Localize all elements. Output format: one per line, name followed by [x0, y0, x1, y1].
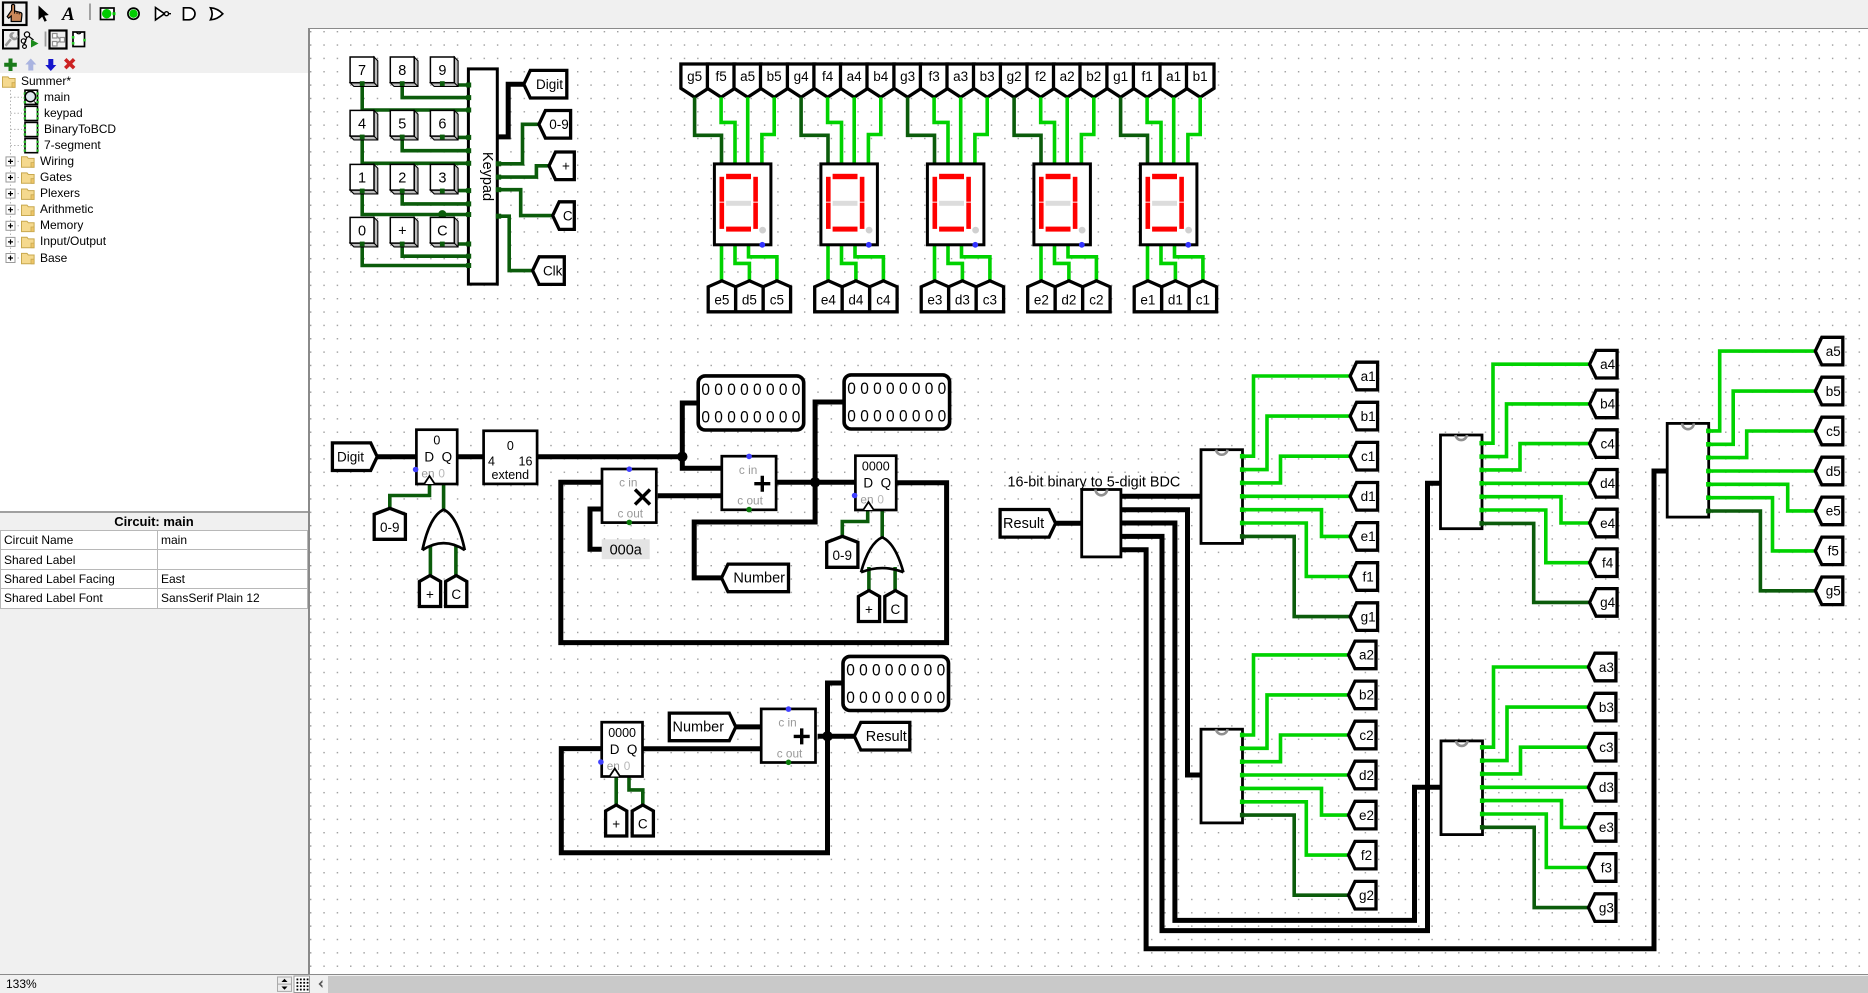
svg-text:D: D [610, 742, 620, 757]
tunnel b2 (south) [1080, 64, 1108, 97]
wire keypad C output [497, 190, 552, 216]
tunnel a1 (west) [1350, 362, 1378, 390]
keypad block (subcircuit) [468, 69, 497, 284]
wire a2 segment [1065, 97, 1069, 164]
tunnel b1 (west) [1350, 402, 1378, 430]
svg-text:16-bit binary to 5-digit BDC: 16-bit binary to 5-digit BDC [1008, 475, 1181, 491]
wire d4 [1482, 481, 1590, 485]
wire f2 [1243, 802, 1349, 855]
button 0 [350, 217, 378, 247]
svg-text:b5: b5 [1826, 384, 1841, 399]
wire d2 segment [1055, 245, 1069, 286]
svg-text:c1: c1 [1196, 293, 1210, 308]
wire keypad + output [497, 166, 549, 177]
wire g5 [1709, 511, 1816, 591]
7-segment display DS1 [1140, 164, 1197, 245]
wire e4 [1482, 497, 1590, 523]
toolbar row2: simulate icon [24, 32, 29, 37]
svg-text:b2: b2 [1359, 688, 1374, 703]
svg-text:c out: c out [737, 494, 763, 508]
keypad output pin [496, 214, 501, 219]
svg-text:Q: Q [627, 742, 638, 757]
wire b1 segment [1188, 97, 1200, 164]
svg-text:5: 5 [398, 117, 406, 133]
bus extender out to junction [537, 454, 682, 459]
tunnel b5 (south) [761, 64, 789, 97]
wire e5 [1709, 484, 1816, 511]
wire g2 segment [1014, 97, 1041, 164]
tunnel Digit (west) [524, 70, 567, 98]
tunnel a2 (west) [1349, 641, 1377, 669]
svg-text:C: C [891, 602, 901, 617]
tunnel c3 (north) [976, 281, 1003, 312]
tunnel C REG1 (north) [446, 576, 467, 607]
tunnel d3 (west) [1588, 774, 1616, 802]
tunnel b1 (south) [1187, 64, 1215, 97]
toolbar row3: move up (disabled) [25, 59, 36, 71]
wire a5 [1709, 351, 1816, 431]
svg-text:d5: d5 [1826, 464, 1841, 479]
wire button C to keypad [442, 241, 468, 245]
svg-text:C: C [563, 208, 573, 223]
svg-text:e4: e4 [1600, 516, 1616, 531]
toolbar: output pin tool [128, 8, 139, 19]
svg-text:2: 2 [398, 171, 406, 187]
keypad input pin [466, 263, 471, 268]
junction node [810, 477, 820, 487]
wire button 4 to keypad [362, 136, 468, 163]
svg-text:f4: f4 [822, 69, 834, 84]
svg-text:f5: f5 [1828, 544, 1839, 559]
svg-text:e4: e4 [821, 293, 837, 308]
bus junction to adder U2 input A [682, 457, 722, 469]
tunnel e4 (west) [1590, 509, 1618, 537]
svg-text:c4: c4 [876, 293, 891, 308]
wire a2 [1243, 655, 1349, 735]
bus REG3 Q to adder U3 input B [642, 746, 762, 751]
tunnel a3 (south) [947, 64, 974, 97]
tunnel e2 (north) [1028, 281, 1055, 312]
bus BCD digit2 to decoder DEC2 [1121, 510, 1201, 775]
tunnel f3 (west) [1588, 854, 1616, 882]
wire button + to keypad [402, 243, 468, 256]
svg-text:d1: d1 [1168, 293, 1183, 308]
wire g3 [1483, 827, 1589, 907]
wire f4 [1482, 510, 1590, 563]
wire c5 segment [749, 245, 777, 286]
svg-text:a5: a5 [740, 69, 755, 84]
svg-text:c3: c3 [983, 293, 997, 308]
wire keypad Clk output [497, 216, 532, 270]
tunnel b4 (west) [1590, 390, 1618, 418]
wire tunnel + to REG3 clock [614, 777, 618, 805]
svg-text:e5: e5 [1826, 504, 1841, 519]
register REG2 enable pin (floating) [852, 493, 858, 499]
adder U3 plus symbol [794, 728, 810, 744]
wire tunnel + to OR G1 [429, 546, 433, 581]
toolbar row2: wrench button [3, 30, 19, 49]
tunnel Number dest (west) [722, 564, 789, 592]
svg-text:extend: extend [492, 468, 530, 482]
tunnel Clk (west) [533, 257, 565, 285]
tunnel Result dest (west) [854, 722, 910, 750]
keypad output pin [496, 161, 501, 166]
keypad input pin [466, 254, 471, 259]
tunnel 0-9 (west) [539, 111, 571, 139]
button output pin [400, 135, 405, 140]
bus feedback loop to REG3 D [561, 736, 827, 853]
junction node [822, 731, 832, 741]
svg-text:c5: c5 [770, 293, 784, 308]
wire f5 segment [721, 97, 735, 164]
bus BCD digit4 to decoder DEC4 [1121, 483, 1441, 930]
svg-text:4: 4 [358, 117, 366, 133]
tunnel 0-9 REG1 (north) [374, 508, 405, 539]
tunnel a3 (west) [1588, 653, 1616, 681]
button C [430, 217, 458, 247]
svg-text:1: 1 [358, 171, 366, 187]
svg-text:0 0 0 0 0 0 0 0: 0 0 0 0 0 0 0 0 [846, 689, 945, 707]
bus REG2 Q feedback loop to multiplier U1 input A [561, 482, 947, 642]
tunnel 0-9 REG2 (north) [827, 536, 858, 567]
register REG1 [416, 430, 457, 484]
tunnel g5 (west) [1815, 577, 1843, 605]
button output pin [440, 135, 445, 140]
svg-text:a1: a1 [1166, 69, 1181, 84]
svg-text:Result: Result [1003, 516, 1044, 532]
tunnel c1 (west) [1350, 442, 1378, 470]
keypad output pin [496, 175, 501, 180]
button 4 [350, 110, 378, 139]
svg-text:3: 3 [438, 171, 446, 187]
adder U3 [761, 709, 815, 763]
svg-text:g3: g3 [900, 69, 915, 84]
svg-text:Digit: Digit [337, 450, 364, 465]
keypad input pin [466, 212, 471, 217]
adder U3 carry-out pin [786, 760, 792, 766]
tunnel f5 (west) [1815, 537, 1843, 565]
svg-text:0: 0 [358, 224, 366, 240]
svg-text:d2: d2 [1061, 293, 1076, 308]
tunnel f1 (west) [1350, 563, 1378, 591]
tunnel e4 (north) [815, 281, 842, 312]
bus REG1 Q to bit extender [457, 454, 483, 459]
register REG2 [855, 456, 896, 510]
wire f3 segment [934, 97, 948, 164]
register REG3 enable pin (floating) [598, 759, 604, 765]
register REG3 [602, 722, 643, 776]
tunnel b4 (south) [867, 64, 895, 97]
svg-text:d3: d3 [1599, 780, 1614, 795]
keypad input pin [466, 161, 471, 166]
wire c2 segment [1068, 245, 1096, 286]
tunnel f5 (south) [707, 64, 735, 97]
wire button 2 to keypad [402, 190, 468, 204]
svg-text:C: C [638, 817, 648, 832]
tunnel g2 (south) [1000, 64, 1027, 97]
bus multiplier U1 out to adder U2 input B [658, 493, 722, 498]
svg-text:b3: b3 [980, 69, 995, 84]
tunnel c5 (west) [1815, 417, 1843, 445]
tunnel a4 (west) [1590, 350, 1618, 378]
wire e5 segment [720, 245, 724, 286]
tunnel g4 (west) [1590, 589, 1618, 617]
tunnel g3 (south) [894, 64, 921, 97]
wire d1 [1243, 494, 1351, 498]
tunnel d5 (north) [736, 281, 763, 312]
svg-text:c4: c4 [1600, 436, 1615, 451]
wire e1 [1243, 510, 1351, 537]
svg-text:b1: b1 [1193, 69, 1208, 84]
wire d5 segment [735, 245, 749, 286]
svg-text:a3: a3 [1599, 660, 1614, 675]
wire d1 segment [1161, 245, 1175, 286]
tunnel C REG3 (north) [632, 805, 653, 836]
svg-text:Number: Number [673, 720, 725, 736]
svg-text:f3: f3 [1601, 860, 1612, 875]
tunnel plus REG3 (north) [606, 805, 627, 836]
button output pin [440, 189, 445, 194]
wire OR gate G2 out to REG2 [880, 510, 884, 537]
tunnel a1 (south) [1160, 64, 1187, 97]
wire b3 segment [975, 97, 987, 164]
toolbar: OR gate tool [211, 8, 223, 20]
wire f1 [1243, 523, 1351, 577]
svg-text:g1: g1 [1361, 609, 1376, 624]
bus Digit to register REG1 D [377, 454, 416, 459]
svg-text:d5: d5 [742, 293, 757, 308]
svg-text:Result: Result [866, 729, 907, 745]
svg-text:c out: c out [618, 506, 644, 520]
toolbar: input pin tool [101, 8, 115, 20]
wire e3 segment [933, 245, 937, 286]
tunnel f3 (south) [920, 64, 948, 97]
svg-text:g1: g1 [1113, 69, 1128, 84]
wire g5 segment [695, 97, 722, 164]
svg-text:e5: e5 [714, 293, 729, 308]
tunnel C REG2 (north) [885, 591, 906, 622]
wire b2 segment [1081, 97, 1093, 164]
wire a4 [1482, 364, 1590, 443]
svg-text:f1: f1 [1141, 69, 1152, 84]
button + [390, 217, 418, 247]
svg-text:d4: d4 [1600, 476, 1616, 491]
svg-text:f4: f4 [1602, 556, 1614, 571]
keypad input pin [466, 242, 471, 247]
tunnel c2 (west) [1349, 721, 1377, 749]
tunnel c5 (north) [763, 281, 790, 312]
button output pin [400, 189, 405, 194]
svg-text:0-9: 0-9 [833, 548, 853, 563]
svg-text:f3: f3 [928, 69, 939, 84]
tunnel d2 (north) [1055, 281, 1082, 312]
tunnel g5 (south) [681, 64, 708, 97]
svg-text:d2: d2 [1359, 768, 1374, 783]
svg-text:g2: g2 [1359, 888, 1374, 903]
subcircuit 7-segment decoder DEC5 [1667, 423, 1709, 517]
svg-text:d4: d4 [848, 293, 864, 308]
svg-text:C: C [451, 587, 461, 602]
wire a3 segment [959, 97, 963, 164]
register REG2 clock triangle [863, 502, 874, 510]
svg-text:a5: a5 [1826, 344, 1841, 359]
svg-text:0 0 0 0 0 0 0 0: 0 0 0 0 0 0 0 0 [701, 381, 800, 399]
tunnel a5 (south) [734, 64, 761, 97]
wire tunnel 0-9 to REG1 clock [390, 484, 430, 508]
wire tunnel 0-9 to REG2 clock [842, 510, 867, 536]
tunnel e5 (north) [708, 281, 735, 312]
svg-text:f2: f2 [1361, 848, 1372, 863]
wire f1 segment [1147, 97, 1161, 164]
button 9 [430, 57, 458, 87]
wire button 7 to keypad [362, 83, 468, 110]
probe P2 (16-bit, value 0) [844, 375, 950, 429]
svg-text:0: 0 [438, 466, 445, 480]
tunnel c4 (west) [1590, 430, 1618, 458]
svg-text:+: + [426, 587, 434, 602]
tunnel e1 (north) [1134, 281, 1161, 312]
tunnel b5 (west) [1815, 377, 1843, 405]
tunnel c2 (north) [1083, 281, 1110, 312]
svg-text:f5: f5 [715, 69, 726, 84]
tunnel a2 (south) [1054, 64, 1081, 97]
wire g1 [1243, 536, 1351, 616]
wire c4 segment [855, 245, 883, 286]
wire c2 [1243, 735, 1349, 762]
wire c5 [1709, 431, 1816, 458]
tunnel g3 (west) [1588, 894, 1616, 922]
svg-text:e1: e1 [1361, 529, 1376, 544]
keypad input pin [466, 201, 471, 206]
svg-text:+: + [612, 817, 620, 832]
tunnel g1 (south) [1107, 64, 1134, 97]
svg-text:16: 16 [519, 455, 533, 469]
svg-text:4: 4 [488, 455, 495, 469]
tunnel e3 (west) [1588, 814, 1616, 842]
svg-text:0 0 0 0 0 0 0 0: 0 0 0 0 0 0 0 0 [847, 407, 946, 425]
tunnel d2 (west) [1349, 761, 1377, 789]
button output pin [440, 81, 445, 86]
svg-text:b5: b5 [767, 69, 782, 84]
svg-text:g5: g5 [1826, 584, 1841, 599]
svg-text:e3: e3 [927, 293, 942, 308]
svg-text:g2: g2 [1007, 69, 1022, 84]
wire f5 [1709, 498, 1816, 551]
svg-text:0: 0 [433, 434, 440, 448]
svg-text:b3: b3 [1599, 700, 1614, 715]
tunnel c1 (north) [1189, 281, 1216, 312]
wire g2 [1243, 815, 1349, 895]
wire d5 [1709, 469, 1816, 473]
keypad input pin [466, 148, 471, 153]
junction on button-1 wire [438, 210, 446, 218]
tunnel f4 (west) [1590, 549, 1618, 577]
bus constant 000a to multiplier U1 input B [590, 509, 603, 549]
register REG1 clock triangle [424, 476, 435, 484]
wire tunnel C to REG3 [629, 777, 643, 805]
wire a5 segment [746, 97, 750, 164]
tunnel a4 (south) [841, 64, 868, 97]
wire a1 segment [1172, 97, 1176, 164]
button output pin [360, 242, 365, 247]
keypad input pin [466, 135, 471, 140]
bus BCD digit1 to decoder DEC1 [1121, 494, 1201, 499]
wire f2 segment [1041, 97, 1055, 164]
keypad input pin [466, 108, 471, 113]
tunnel c3 (west) [1588, 733, 1616, 761]
tunnel Result source (east) [1000, 510, 1056, 538]
wire b5 [1709, 391, 1816, 444]
svg-text:000a: 000a [610, 543, 643, 559]
button 3 [430, 164, 458, 194]
svg-text:f2: f2 [1035, 69, 1046, 84]
svg-text:Keypad: Keypad [479, 152, 495, 201]
svg-text:A: A [61, 4, 75, 25]
svg-text:g4: g4 [1600, 595, 1616, 610]
bit extender [484, 431, 537, 484]
svg-text:Number: Number [733, 571, 785, 587]
tunnel e5 (west) [1815, 497, 1843, 525]
tunnel d3 (north) [949, 281, 976, 312]
svg-text:c2: c2 [1359, 728, 1373, 743]
button output pin [360, 135, 365, 140]
tunnel f2 (west) [1349, 841, 1377, 869]
7-segment display DS3 [927, 164, 984, 245]
svg-text:a4: a4 [1600, 357, 1616, 372]
tunnel d4 (west) [1590, 470, 1618, 498]
button 6 [430, 110, 458, 139]
wire button 5 to keypad [402, 136, 468, 151]
svg-text:a2: a2 [1359, 648, 1374, 663]
button 2 [390, 164, 418, 194]
button 7 [350, 57, 378, 87]
button 8 [390, 57, 418, 87]
svg-text:c in: c in [778, 716, 796, 730]
adder U2 plus symbol [754, 476, 770, 492]
toolbar row3: remove circuit [64, 58, 75, 69]
wire e2 [1243, 788, 1349, 815]
tunnel C (west) [553, 202, 575, 230]
tunnel Number source (east) [669, 713, 736, 741]
toolbar row2: project toolbar (selected) [50, 31, 67, 49]
tunnel f2 (south) [1027, 64, 1054, 97]
svg-text:f1: f1 [1362, 569, 1373, 584]
wire c4 [1482, 444, 1590, 470]
wire c1 segment [1175, 245, 1203, 286]
wire d3 segment [948, 245, 962, 286]
wire b2 [1243, 695, 1349, 748]
svg-text:b2: b2 [1086, 69, 1101, 84]
bus adder U3 out to tunnel Result [818, 734, 855, 739]
OR gate G2 [861, 537, 903, 572]
tunnel f1 (south) [1133, 64, 1160, 97]
tunnel e2 (west) [1349, 801, 1377, 829]
tunnel d5 (west) [1815, 457, 1843, 485]
svg-text:e1: e1 [1140, 293, 1155, 308]
wire a1 [1243, 376, 1351, 456]
wire d4 segment [842, 245, 856, 286]
svg-text:0000: 0000 [862, 460, 890, 474]
OR gate G1 [422, 510, 464, 550]
svg-text:a4: a4 [847, 69, 863, 84]
register REG3 clock triangle [610, 769, 621, 777]
svg-text:e2: e2 [1034, 293, 1049, 308]
svg-text:6: 6 [438, 117, 446, 133]
svg-text:+: + [398, 224, 406, 240]
wire b5 segment [762, 97, 774, 164]
toolbar: poke tool (selected) [3, 3, 27, 26]
svg-text:a3: a3 [953, 69, 968, 84]
